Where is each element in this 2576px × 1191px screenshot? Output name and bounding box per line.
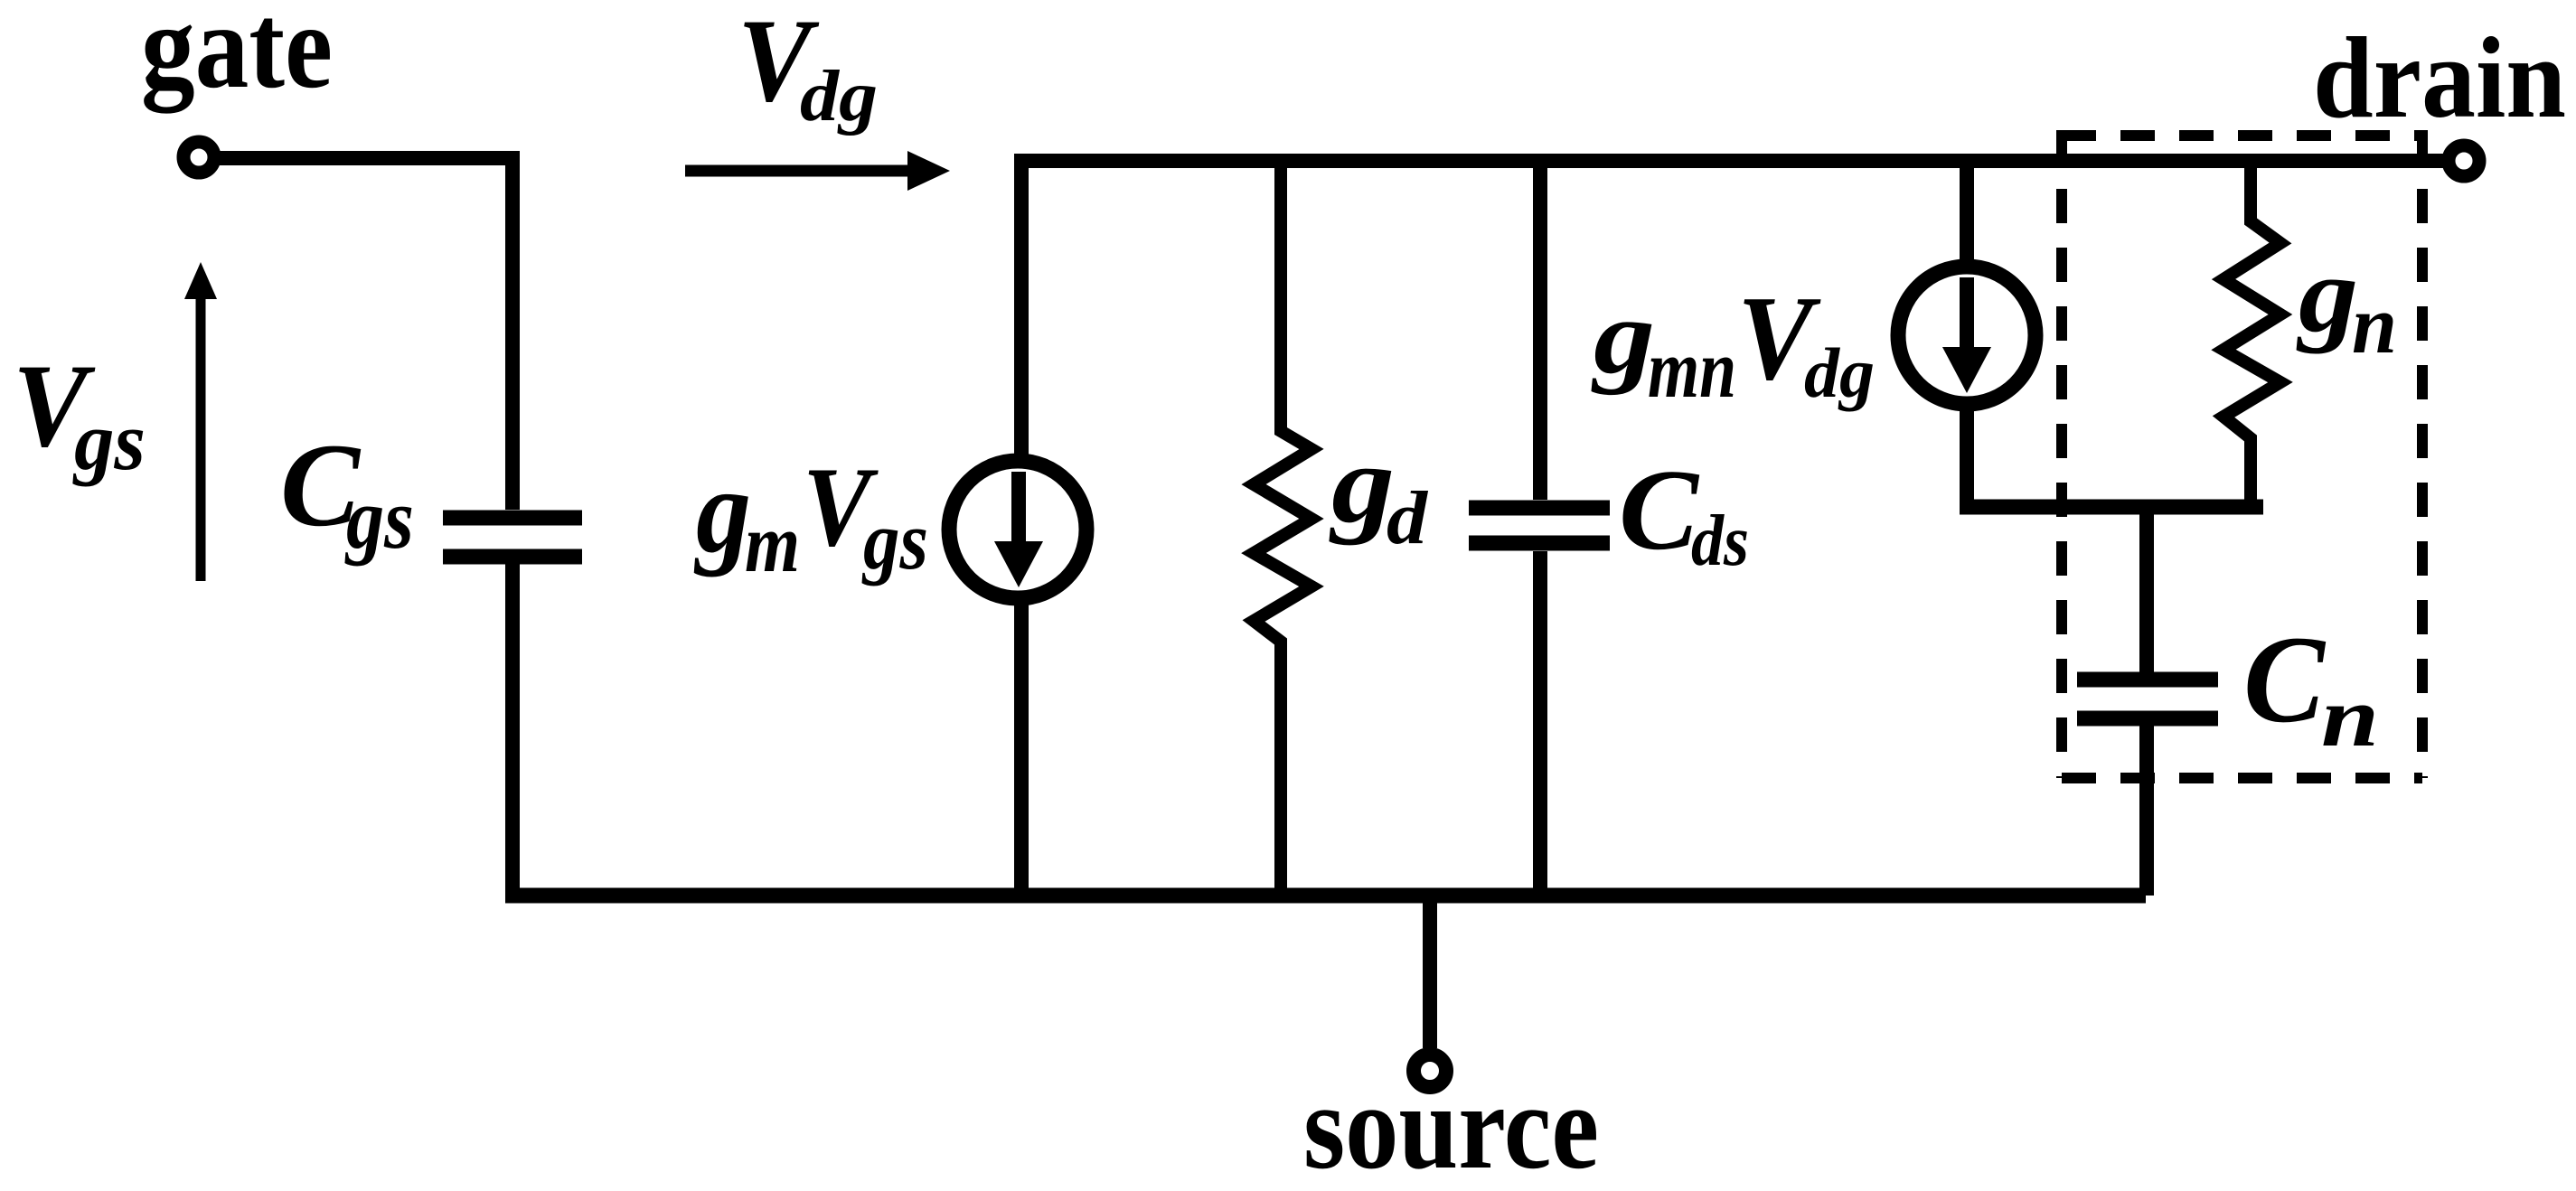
svg-text:C: C bbox=[1619, 445, 1700, 574]
svg-text:g: g bbox=[2296, 234, 2358, 354]
svg-text:ds: ds bbox=[1691, 502, 1749, 581]
svg-text:n: n bbox=[2352, 278, 2397, 370]
current source gmVgs: circle bbox=[949, 461, 1086, 598]
capacitor Cn: plates bbox=[2077, 680, 2218, 718]
current source gmnVdg: bottom lead bbox=[1960, 409, 1974, 500]
svg-text:drain: drain bbox=[2313, 14, 2566, 142]
current source gmVgs: top lead bbox=[1014, 161, 1029, 455]
svg-text:dg: dg bbox=[800, 57, 878, 136]
current source gmVgs: arrow bbox=[1011, 472, 1026, 544]
svg-text:g: g bbox=[693, 444, 751, 577]
capacitor Cds bbox=[1533, 161, 1547, 896]
joining wire gmnVdg + gn bbox=[1960, 500, 2263, 515]
capacitor Cn: bottom lead to bus bbox=[2139, 726, 2154, 896]
svg-text:mn: mn bbox=[1648, 323, 1736, 415]
drain terminal bbox=[2449, 145, 2479, 176]
wire gate to Cgs (horizontal then vertical) bbox=[220, 151, 512, 510]
svg-text:d: d bbox=[1387, 476, 1429, 560]
svg-text:gs: gs bbox=[861, 494, 928, 586]
svg-text:source: source bbox=[1303, 1060, 1599, 1191]
resistor gn bbox=[2223, 166, 2280, 500]
top bus wire (drain node) bbox=[1014, 154, 2443, 168]
Vgs arrow bbox=[196, 298, 206, 581]
svg-text:gs: gs bbox=[344, 470, 414, 567]
bottom bus wire (source node) bbox=[505, 888, 2146, 904]
capacitor Cgs bbox=[443, 518, 582, 557]
capacitor Cn: top lead bbox=[2139, 514, 2154, 672]
svg-text:gs: gs bbox=[72, 395, 146, 487]
source terminal bbox=[1414, 1055, 1446, 1087]
gate terminal bbox=[183, 142, 214, 173]
resistor gd bbox=[1254, 161, 1312, 896]
wire source drop bbox=[1423, 896, 1437, 1048]
svg-text:dg: dg bbox=[1804, 333, 1875, 412]
current source gmnVdg: top lead bbox=[1960, 161, 1974, 260]
svg-text:n: n bbox=[2321, 671, 2379, 764]
current source gmnVdg: arrow bbox=[1960, 277, 1974, 350]
svg-text:C: C bbox=[2243, 610, 2327, 748]
svg-text:g: g bbox=[1329, 422, 1395, 546]
Vdg arrow bbox=[685, 165, 911, 177]
svg-text:gate: gate bbox=[141, 0, 333, 114]
svg-text:m: m bbox=[745, 497, 800, 589]
svg-text:g: g bbox=[1591, 277, 1655, 396]
dashed noise box bbox=[2062, 130, 2422, 778]
current source gmVgs: bottom lead bbox=[1014, 604, 1029, 896]
current source gmnVdg: circle bbox=[1898, 267, 2035, 404]
wire Cgs to bottom bus bbox=[505, 564, 520, 896]
